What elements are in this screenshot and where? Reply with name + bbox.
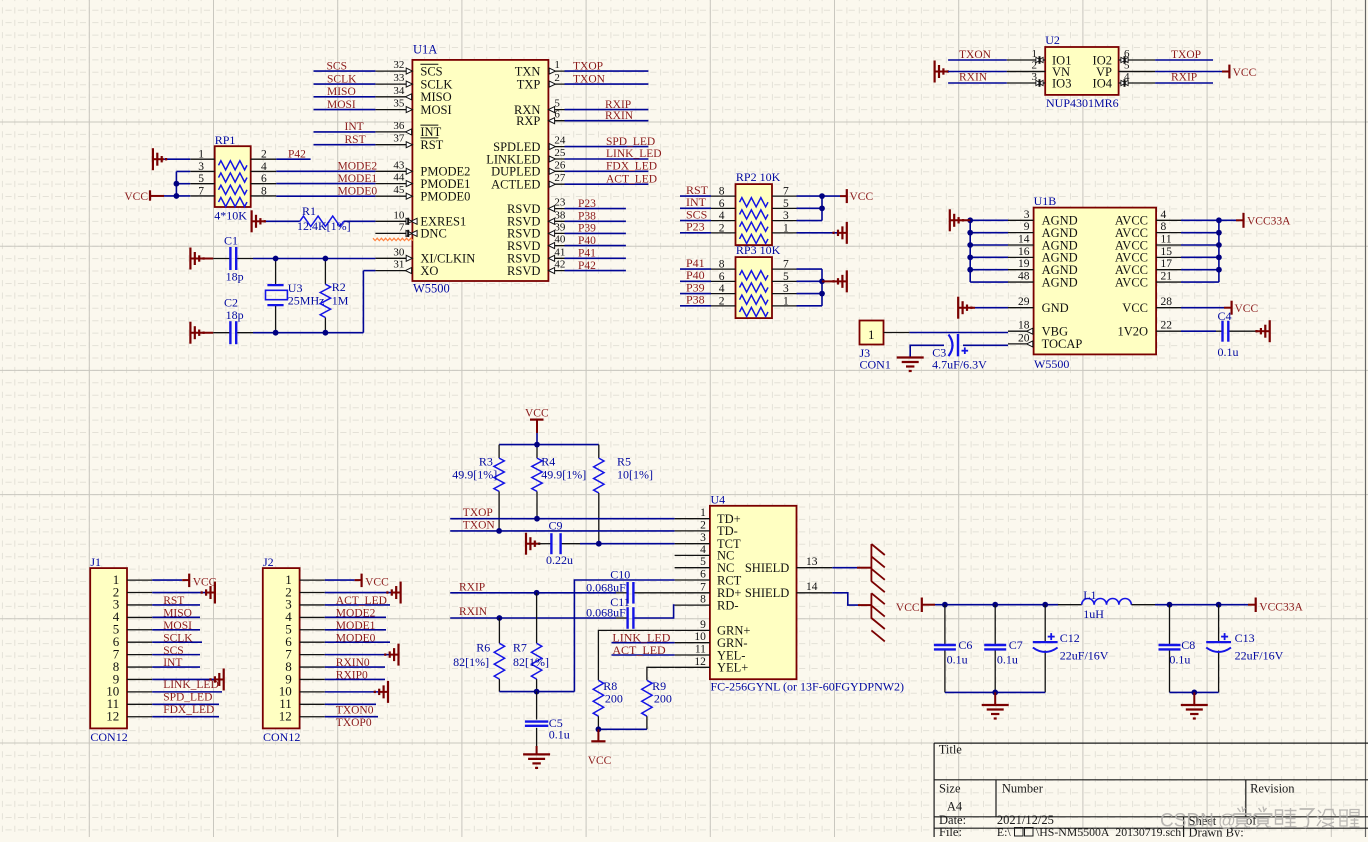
junction AVCC row 1 — [1216, 217, 1222, 223]
wire C6-C7-C12 bottom rail — [945, 691, 1045, 693]
wire J1 pin5 net MOSI — [152, 629, 200, 631]
svg-text:P42: P42 — [578, 260, 596, 272]
svg-text:GND: GND — [1042, 301, 1069, 315]
svg-text:FC-256GYNL (or 13F-60FGYDPNW2): FC-256GYNL (or 13F-60FGYDPNW2) — [711, 680, 905, 694]
svg-text:18p: 18p — [226, 270, 244, 284]
wire J3 to U1B VBG — [884, 332, 910, 334]
svg-text:AVCC: AVCC — [1115, 275, 1148, 289]
capacitor C8 0.1u — [1159, 605, 1196, 693]
svg-text:FDX_LED: FDX_LED — [163, 704, 214, 716]
svg-text:21: 21 — [1161, 271, 1173, 283]
wire RP1 pin1 to ground — [164, 158, 190, 160]
svg-text:10: 10 — [694, 631, 706, 643]
svg-text:R7: R7 — [513, 641, 527, 655]
svg-text:CON1: CON1 — [860, 358, 891, 372]
svg-text:1: 1 — [868, 327, 875, 342]
svg-text:Size: Size — [939, 782, 961, 796]
title block text — [939, 743, 1296, 840]
resistor R6 82[1%] — [453, 618, 505, 692]
svg-text:44: 44 — [393, 172, 405, 184]
junction TXOP/R4 — [534, 516, 540, 522]
wire J1 pin1 to VCC — [152, 579, 182, 581]
svg-text:0.068uF: 0.068uF — [586, 606, 626, 620]
wire net P40 from U1A — [565, 245, 626, 247]
wire R8-R9 rail — [598, 728, 647, 730]
svg-text:1: 1 — [700, 507, 706, 519]
svg-text:48: 48 — [1018, 271, 1030, 283]
junction bottom rail gnd 2 — [1191, 690, 1197, 696]
junction R8/VCC — [596, 726, 602, 732]
wire VCC rail — [536, 433, 538, 445]
ground (J1 pin2) — [207, 592, 215, 594]
svg-text:P40: P40 — [578, 235, 596, 247]
capacitor C5 0.1u — [525, 692, 570, 746]
junction C12 — [1042, 602, 1048, 608]
wire J2 pin9 net RXIP0 — [325, 678, 385, 680]
svg-text:0.1u: 0.1u — [1169, 653, 1190, 667]
wire J2 pin3 net ACT_LED — [325, 604, 390, 606]
wire J2 pin8 net RXIN0 — [325, 666, 385, 668]
svg-text:R6: R6 — [476, 641, 490, 655]
junction C5/R7 — [534, 689, 540, 695]
resistor R4 49.9[1%] — [532, 455, 587, 519]
wire net P39 to RP3 — [680, 293, 711, 295]
svg-text:MODE0: MODE0 — [338, 185, 378, 197]
junction RP3 pin3 — [819, 291, 825, 297]
svg-text:TXOP: TXOP — [1171, 49, 1201, 61]
wire net RST to U1A — [314, 144, 376, 146]
svg-text:6: 6 — [554, 109, 560, 121]
wire net P41 to RP3 — [680, 268, 711, 270]
power VCC (RP2) — [840, 195, 847, 197]
junction RXIP/R7 — [534, 590, 540, 596]
svg-text:RXIP: RXIP — [1171, 71, 1197, 83]
ground (C5) — [536, 746, 538, 754]
ground (J1 pin9) — [216, 678, 224, 680]
power VCC (J2 pin1) — [355, 579, 362, 581]
svg-text:3: 3 — [1024, 209, 1030, 221]
svg-text:RST: RST — [345, 134, 366, 146]
svg-text:SCLK: SCLK — [327, 73, 357, 85]
wire XI/CLKIN row — [253, 258, 375, 260]
svg-text:22: 22 — [1161, 320, 1173, 332]
svg-text:5: 5 — [700, 556, 706, 568]
capacitor C1 18p — [213, 233, 253, 283]
junction AGND row 4 — [967, 254, 973, 260]
svg-text:11: 11 — [695, 644, 706, 656]
svg-text:TXP: TXP — [517, 77, 541, 91]
svg-text:8: 8 — [700, 594, 706, 606]
svg-text:VCC: VCC — [1122, 301, 1148, 315]
capacitor C3 4.7uF/6.3V (polarized) — [932, 334, 987, 372]
capacitor C10 0.068uF — [586, 568, 675, 604]
svg-text:13: 13 — [806, 556, 818, 568]
svg-text:VCC: VCC — [1233, 67, 1257, 79]
junction VCC rail / R4 — [534, 442, 540, 448]
svg-text:4.7uF/6.3V: 4.7uF/6.3V — [932, 358, 987, 372]
svg-text:VCC33A: VCC33A — [1247, 216, 1291, 228]
ground (J2 pin10) — [380, 691, 388, 693]
svg-text:2: 2 — [719, 222, 725, 234]
IC U4 FC-256GYNL — [675, 493, 904, 694]
svg-text:11: 11 — [1161, 234, 1172, 246]
wire RP1 pins 3-5-7 bus — [176, 170, 190, 172]
svg-text:SCS: SCS — [327, 60, 347, 72]
svg-text:U4: U4 — [711, 493, 726, 507]
svg-text:6: 6 — [719, 198, 725, 210]
wire RP3 pins 7-5-3-1 bus — [797, 268, 823, 270]
wire J2 pin2 to ground — [325, 592, 393, 594]
wire RP2 pins 7-5-3 bus to VCC — [797, 195, 841, 197]
wire U1B AGND bus — [970, 219, 1008, 221]
ground (RP3) — [822, 280, 847, 282]
wire RP1 pin2 net P42 — [276, 158, 310, 160]
svg-text:VCC: VCC — [365, 577, 389, 589]
svg-text:7: 7 — [399, 221, 405, 233]
svg-text:MODE2: MODE2 — [338, 161, 378, 173]
connector J3 CON1 — [860, 321, 891, 372]
svg-text:25: 25 — [554, 147, 566, 159]
svg-text:DNC: DNC — [420, 227, 446, 241]
svg-text:C4: C4 — [1218, 309, 1232, 323]
wire net RST to RP2 — [680, 195, 711, 197]
svg-text:YEL+: YEL+ — [717, 661, 748, 675]
svg-text:31: 31 — [393, 259, 404, 271]
wire net P42 from U1A — [565, 270, 626, 272]
wire net MOSI to U1A — [314, 109, 376, 111]
junction AGND row 3 — [967, 242, 973, 248]
svg-text:W5500: W5500 — [1034, 357, 1069, 371]
svg-text:4: 4 — [261, 161, 267, 173]
wire net RXIN to U2 — [948, 82, 1007, 84]
svg-text:39: 39 — [554, 221, 566, 233]
svg-text:5: 5 — [1124, 60, 1130, 72]
wire RCT center-tap rail — [499, 691, 574, 693]
svg-text:C7: C7 — [1009, 638, 1023, 652]
wire AVCC to VCC33A — [1219, 219, 1236, 221]
svg-text:12.4K[1%]: 12.4K[1%] — [297, 219, 351, 233]
svg-text:Number: Number — [1002, 782, 1044, 796]
svg-text:7: 7 — [198, 185, 204, 197]
wire 1V2O to C4 — [1181, 330, 1216, 332]
svg-text:TXOP: TXOP — [463, 507, 493, 519]
svg-text:40: 40 — [554, 234, 566, 246]
ground (C3/TOCAP) — [897, 356, 924, 358]
svg-text:C12: C12 — [1060, 631, 1080, 645]
svg-text:RXIP: RXIP — [459, 581, 485, 593]
svg-text:Title: Title — [939, 743, 963, 757]
power VCC33A (filter output) — [1248, 604, 1256, 606]
wire VCC pin28 — [1181, 307, 1224, 309]
svg-text:ACT_LED: ACT_LED — [336, 595, 387, 607]
ground (C9) — [525, 533, 527, 555]
wire net RXIN to C11 — [450, 617, 616, 619]
svg-text:17: 17 — [1161, 258, 1173, 270]
ground (U1B GND pin29) — [958, 307, 975, 309]
wire J1 pin2 to ground — [152, 592, 207, 594]
svg-text:19: 19 — [1018, 258, 1030, 270]
junction C7 — [992, 602, 998, 608]
svg-text:C8: C8 — [1181, 638, 1195, 652]
wire net MODE0 RP1 to U1A — [276, 195, 375, 197]
wire SHIELD pin13 to chassis — [832, 567, 857, 569]
svg-text:R1: R1 — [302, 204, 316, 218]
svg-text:8: 8 — [261, 185, 267, 197]
svg-text:R2: R2 — [332, 280, 346, 294]
svg-text:9: 9 — [700, 619, 706, 631]
wire net INT to U1A — [314, 131, 376, 133]
junction bottom rail gnd — [992, 690, 998, 696]
svg-text:MOSI: MOSI — [163, 620, 192, 632]
svg-text:34: 34 — [393, 85, 405, 97]
chassis ground (shield 14) — [871, 593, 884, 641]
wire net SCS to U1A — [314, 70, 376, 72]
svg-text:32: 32 — [393, 59, 404, 71]
wire net RXIP to C10 — [450, 592, 616, 594]
svg-text:A4: A4 — [947, 800, 963, 814]
svg-text:ACTLED: ACTLED — [491, 178, 540, 192]
wire net ACT_LED from U1A — [565, 183, 649, 185]
svg-text:4*10K: 4*10K — [214, 209, 247, 223]
svg-text:MISO: MISO — [163, 608, 192, 620]
wire net MODE1 RP1 to U1A — [276, 183, 375, 185]
svg-text:SHIELD: SHIELD — [745, 561, 789, 575]
svg-text:MOSI: MOSI — [420, 103, 451, 117]
wire J1 pin4 net MISO — [152, 616, 200, 618]
svg-text:9: 9 — [1024, 221, 1030, 233]
wire J1 pin8 net INT — [152, 666, 200, 668]
svg-text:P38: P38 — [578, 211, 596, 223]
IC U1B (W5500 analog/power section) — [1008, 194, 1181, 371]
svg-text:0.1u: 0.1u — [549, 728, 570, 742]
svg-text:4: 4 — [719, 283, 725, 295]
wire U2 VP to VCC — [1119, 71, 1156, 73]
svg-text:U1A: U1A — [413, 43, 437, 57]
wire VCC rail left — [935, 604, 1058, 606]
svg-text:RXIN: RXIN — [459, 606, 488, 618]
svg-text:RP2 10K: RP2 10K — [736, 170, 781, 184]
ground (U2 VN) — [935, 71, 948, 73]
wire J2 pin10 to ground — [325, 691, 380, 693]
wire TOCAP row — [910, 345, 944, 357]
junction C1/U3 — [273, 256, 279, 262]
ground (RP2 pin1) — [838, 232, 847, 234]
wire net RXIP from U2 — [1155, 82, 1213, 84]
wire TCT row to U4 pin3 — [580, 543, 675, 545]
svg-text:1V2O: 1V2O — [1117, 325, 1148, 339]
svg-text:File:: File: — [939, 825, 962, 837]
junction AVCC row 3 — [1216, 242, 1222, 248]
svg-text:J2: J2 — [263, 555, 274, 569]
svg-text:LINK_LED: LINK_LED — [163, 679, 219, 691]
svg-text:2: 2 — [554, 72, 560, 84]
wire J2 pin7 to ground — [325, 654, 391, 656]
svg-text:SPD_LED: SPD_LED — [606, 136, 655, 148]
svg-text:U2: U2 — [1045, 33, 1060, 47]
ground (C8C13) — [1193, 692, 1195, 705]
wire net TXON to U2 — [948, 59, 1007, 61]
wire net TXOP from U2 — [1155, 59, 1213, 61]
junction TXON/R3 — [496, 528, 502, 534]
svg-text:SCS: SCS — [420, 64, 442, 78]
wire net P38 from U1A — [565, 220, 626, 222]
wire net P23 from U1A — [565, 208, 626, 210]
wire J1 pin6 net SCLK — [152, 641, 202, 643]
junction R2 top — [323, 256, 329, 262]
svg-text:2: 2 — [1032, 60, 1038, 72]
svg-text:8: 8 — [719, 186, 725, 198]
wire net P41 from U1A — [565, 257, 626, 259]
power VCC (U2 VP) — [1222, 71, 1229, 73]
svg-text:18p: 18p — [226, 308, 244, 322]
junction AVCC row 5 — [1216, 267, 1222, 273]
svg-text:10: 10 — [393, 209, 405, 221]
resistor R7 82[1%] — [513, 593, 549, 692]
svg-text:2: 2 — [261, 149, 267, 161]
wire net MODE2 RP1 to U1A — [276, 170, 375, 172]
junction AGND row 5 — [967, 267, 973, 273]
svg-text:82[1%]: 82[1%] — [513, 655, 549, 669]
svg-text:PMODE0: PMODE0 — [420, 190, 470, 204]
svg-text:0.22u: 0.22u — [546, 553, 573, 567]
wire U1B AVCC bus — [1181, 219, 1219, 221]
wire net P39 from U1A — [565, 232, 626, 234]
junction R2 bottom — [323, 330, 329, 336]
svg-text:VCC: VCC — [896, 602, 920, 614]
svg-text:12: 12 — [106, 709, 119, 724]
svg-text:38: 38 — [554, 209, 566, 221]
svg-text:XO: XO — [420, 264, 438, 278]
svg-text:SHIELD: SHIELD — [745, 586, 789, 600]
capacitor C4 0.1u — [1216, 309, 1256, 359]
svg-text:45: 45 — [393, 184, 405, 196]
ground (J2 pin7) — [391, 654, 399, 656]
crystal U3 25MHz — [266, 259, 325, 333]
watermark CSDN — [1160, 807, 1360, 832]
svg-text:37: 37 — [393, 133, 405, 145]
junction C2/U3 — [273, 330, 279, 336]
svg-text:C13: C13 — [1235, 631, 1255, 645]
wire J2 pin5 net MODE1 — [325, 629, 386, 631]
svg-text:4: 4 — [719, 210, 725, 222]
svg-text:3: 3 — [783, 283, 789, 295]
junction RP1 pin7 — [174, 193, 180, 199]
wire net RXIN from U1A — [565, 120, 649, 122]
junction AGND row 2 — [967, 230, 973, 236]
svg-text:3: 3 — [700, 532, 706, 544]
ground (J2 pin2) — [393, 592, 401, 594]
wire net SPD_LED from U1A — [565, 146, 649, 148]
svg-text:C9: C9 — [549, 519, 563, 533]
capacitor C11 0.068uF — [586, 595, 675, 629]
resistor network RP1 4*10K — [190, 133, 276, 223]
power VCC (U1B pin28) — [1224, 307, 1232, 309]
svg-text:41: 41 — [554, 246, 565, 258]
wire J2 pin6 net MODE0 — [325, 641, 390, 643]
junction AVCC row 2 — [1216, 230, 1222, 236]
connector J2 CON12 — [263, 555, 325, 744]
junction AGND row 1 — [967, 217, 973, 223]
svg-text:MODE1: MODE1 — [338, 173, 378, 185]
power VCC33A (U1B) — [1236, 219, 1244, 221]
junction TCT/R5 — [596, 541, 602, 547]
wire net P23 to RP2 — [680, 232, 711, 234]
svg-text:RP3 10K: RP3 10K — [736, 243, 781, 257]
IC U1A (W5500 digital section) — [375, 43, 566, 296]
svg-text:22uF/16V: 22uF/16V — [1060, 649, 1109, 663]
svg-text:4: 4 — [1161, 209, 1167, 221]
svg-text:1: 1 — [554, 59, 560, 71]
svg-text:24: 24 — [554, 135, 566, 147]
svg-text:C6: C6 — [958, 638, 972, 652]
svg-text:3: 3 — [198, 161, 204, 173]
svg-text:82[1%]: 82[1%] — [453, 655, 489, 669]
svg-text:SCLK: SCLK — [163, 632, 193, 644]
junction C6 — [942, 602, 948, 608]
wire C2 row — [253, 332, 363, 334]
svg-text:6: 6 — [700, 569, 706, 581]
svg-text:200: 200 — [605, 691, 623, 705]
svg-text:7: 7 — [783, 186, 789, 198]
svg-text:0.1u: 0.1u — [947, 653, 968, 667]
wire J2 pin4 net MODE2 — [325, 616, 386, 618]
svg-text:P39: P39 — [578, 223, 596, 235]
wire net P40 to RP3 — [680, 280, 711, 282]
power VCC (RP1) — [149, 190, 151, 200]
wire net LINK_LED from U1A — [565, 158, 649, 160]
svg-text:49.9[1%]: 49.9[1%] — [452, 467, 497, 481]
svg-text:VCC: VCC — [588, 755, 612, 767]
svg-text:29: 29 — [1018, 296, 1030, 308]
svg-text:AGND: AGND — [1042, 275, 1078, 289]
resistor R3 49.9[1%] — [452, 455, 504, 531]
wire net TXON to U4 pin2 — [450, 530, 674, 532]
svg-text:5: 5 — [783, 198, 789, 210]
svg-text:P38: P38 — [686, 293, 705, 307]
svg-text:INT: INT — [345, 121, 364, 133]
connector J1 CON12 — [90, 555, 152, 744]
wire EXRES1 — [265, 220, 300, 222]
svg-text:6: 6 — [719, 271, 725, 283]
svg-text:2: 2 — [719, 295, 725, 307]
svg-text:RXIN: RXIN — [605, 110, 634, 122]
svg-text:LINK_LED: LINK_LED — [606, 148, 662, 160]
wire net FDX_LED from U1A — [565, 170, 649, 172]
svg-text:CON12: CON12 — [90, 730, 127, 744]
svg-text:RP1: RP1 — [215, 133, 236, 147]
svg-text:12: 12 — [694, 656, 706, 668]
svg-text:P23: P23 — [578, 198, 596, 210]
resistor R2 1M — [320, 259, 349, 333]
svg-text:@: @ — [1218, 811, 1236, 831]
svg-text:TXON: TXON — [959, 49, 992, 61]
wire net LINK_LED (GRN-) — [612, 642, 675, 644]
capacitor C12 22uF/16V (polarized) — [1033, 605, 1109, 693]
svg-text:TXON: TXON — [463, 519, 496, 531]
capacitor C6 0.1u — [934, 605, 973, 693]
svg-text:43: 43 — [393, 159, 405, 171]
svg-text:23: 23 — [554, 197, 566, 209]
wire J1 pin9 to ground — [152, 678, 216, 680]
junction C8 — [1167, 602, 1173, 608]
power VCC (R8R9) — [597, 729, 599, 741]
svg-text:28: 28 — [1161, 296, 1173, 308]
svg-text:MODE2: MODE2 — [336, 608, 376, 620]
svg-text:CON12: CON12 — [263, 730, 300, 744]
svg-text:12: 12 — [279, 709, 292, 724]
ground (U1B AGND) — [950, 219, 970, 221]
wire J1 pin7 net SCS — [152, 654, 200, 656]
